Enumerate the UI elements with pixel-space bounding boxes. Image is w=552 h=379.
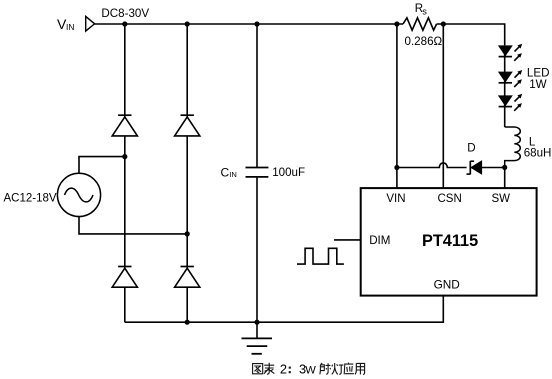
LED 3 [498, 94, 522, 111]
caption figure 2 [253, 363, 275, 375]
diode bridge D2 upper-right [175, 115, 200, 136]
wire AC top terminal [79, 157, 125, 174]
svg-text:IN: IN [66, 22, 74, 32]
PWM square wave symbol [297, 248, 344, 264]
diode bridge D1 upper-left [112, 115, 137, 136]
junction dots bottom rail [185, 320, 190, 325]
schottky diode D [467, 161, 505, 175]
wire DIM pin [334, 239, 361, 241]
LED string wire [504, 45, 506, 127]
svg-text:CSN: CSN [438, 193, 462, 205]
inductor L [505, 127, 521, 167]
LED 1 [498, 44, 522, 61]
wire SW pin vertical [504, 167, 506, 188]
svg-text:SW: SW [492, 193, 511, 205]
svg-text:s: s [422, 6, 427, 16]
svg-text:1W: 1W [529, 78, 546, 91]
hanzi she (shoot) [320, 363, 331, 374]
IC PT4115 box [361, 188, 537, 296]
wire top rail left [95, 23, 403, 25]
svg-text:0.286Ω: 0.286Ω [405, 35, 443, 48]
hanzi ying (should) [344, 363, 354, 375]
svg-text:C: C [221, 166, 230, 180]
wire top rail right [437, 24, 505, 45]
svg-text:D: D [467, 141, 475, 154]
wire VIN pin vertical [396, 24, 398, 188]
hanzi deng (lamp) [332, 363, 344, 374]
svg-text:2: 2 [280, 361, 287, 376]
svg-text:GND: GND [434, 277, 460, 291]
svg-text:DC8-30V: DC8-30V [101, 7, 149, 20]
wire AC bottom terminal [79, 217, 187, 234]
svg-text:W: W [305, 364, 316, 376]
svg-text:68uH: 68uH [524, 146, 552, 159]
svg-text:100uF: 100uF [272, 166, 305, 179]
wire bottom rail [125, 296, 444, 323]
diode bridge D3 lower-left [112, 267, 137, 288]
wire branch2 vertical [186, 24, 188, 322]
diode bridge D4 lower-right [175, 267, 200, 288]
svg-text:DIM: DIM [369, 234, 390, 247]
resistor Rs [403, 18, 437, 30]
input terminal VIN (triangle) [86, 16, 95, 31]
ground [242, 322, 273, 354]
junction dots top rail [122, 21, 127, 26]
svg-text:AC12-18V: AC12-18V [4, 192, 57, 204]
svg-text:IN: IN [229, 170, 237, 179]
AC source [57, 173, 100, 216]
svg-text:PT4115: PT4115 [422, 232, 478, 250]
hanzi biao (table) [264, 363, 274, 375]
wire branch1 vertical [124, 24, 126, 322]
hanzi tu (figure) [253, 364, 263, 374]
wire CIN branch bottom [256, 177, 258, 322]
svg-text:VIN: VIN [386, 193, 405, 205]
junction dot VIN-diode [394, 165, 399, 170]
LED 2 [498, 70, 522, 87]
capacitor CIN [246, 168, 269, 177]
wire CSN pin vertical [442, 24, 444, 188]
junction dot AC bottom [185, 231, 190, 236]
junction dot AC top [122, 154, 127, 159]
wire CIN branch top [256, 24, 258, 168]
hanzi yong (use) [355, 363, 365, 374]
junction dot SW-diode [502, 165, 507, 170]
wire freewheel diode net with hop over CSN [397, 163, 467, 168]
